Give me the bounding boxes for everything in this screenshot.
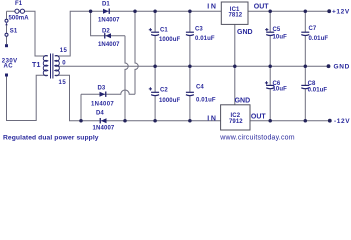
svg-text:S1: S1 <box>10 29 18 35</box>
svg-text:15: 15 <box>60 48 68 54</box>
svg-text:OUT: OUT <box>254 4 269 11</box>
svg-text:IN: IN <box>207 4 217 11</box>
svg-text:D3: D3 <box>98 86 106 92</box>
svg-text:C4: C4 <box>196 85 204 91</box>
svg-text:10uF: 10uF <box>273 35 288 41</box>
svg-text:IN: IN <box>207 116 217 123</box>
svg-text:1N4007: 1N4007 <box>91 101 114 107</box>
svg-text:T1: T1 <box>32 62 41 69</box>
svg-text:0.01uF: 0.01uF <box>195 36 215 42</box>
svg-text:0: 0 <box>62 61 66 67</box>
svg-text:1N4007: 1N4007 <box>98 42 120 48</box>
svg-text:D4: D4 <box>96 111 104 117</box>
svg-text:1000uF: 1000uF <box>159 37 181 43</box>
svg-text:C3: C3 <box>195 27 203 33</box>
svg-text:Regulated dual power supply: Regulated dual power supply <box>3 134 99 141</box>
svg-text:15: 15 <box>59 80 67 86</box>
svg-text:0.01uF: 0.01uF <box>196 98 216 104</box>
svg-text:10uF: 10uF <box>273 86 288 92</box>
svg-text:C8: C8 <box>308 81 316 87</box>
svg-text:C1: C1 <box>160 28 168 34</box>
svg-text:C2: C2 <box>160 87 168 93</box>
svg-text:GND: GND <box>334 64 351 71</box>
svg-text:D1: D1 <box>102 2 110 8</box>
svg-text:1000uF: 1000uF <box>159 98 181 104</box>
svg-text:GND: GND <box>237 29 253 36</box>
svg-text:OUT: OUT <box>251 113 267 120</box>
svg-text:1N4007: 1N4007 <box>93 125 115 131</box>
svg-text:+12V: +12V <box>332 9 350 16</box>
svg-text:C5: C5 <box>273 27 281 33</box>
svg-text:www.circuitstoday.com: www.circuitstoday.com <box>219 134 294 141</box>
svg-text:7812: 7812 <box>229 13 243 19</box>
svg-text:AC: AC <box>4 63 14 69</box>
svg-text:0.01uF: 0.01uF <box>309 36 329 42</box>
svg-text:500mA: 500mA <box>9 15 30 21</box>
svg-text:F1: F1 <box>15 1 23 7</box>
svg-text:7912: 7912 <box>229 119 243 125</box>
svg-text:-12V: -12V <box>334 118 350 125</box>
svg-text:0.01uF: 0.01uF <box>308 88 328 94</box>
svg-text:1N4007: 1N4007 <box>98 18 120 24</box>
svg-text:C7: C7 <box>309 26 317 32</box>
svg-text:D2: D2 <box>102 28 110 34</box>
svg-text:GND: GND <box>235 97 251 104</box>
